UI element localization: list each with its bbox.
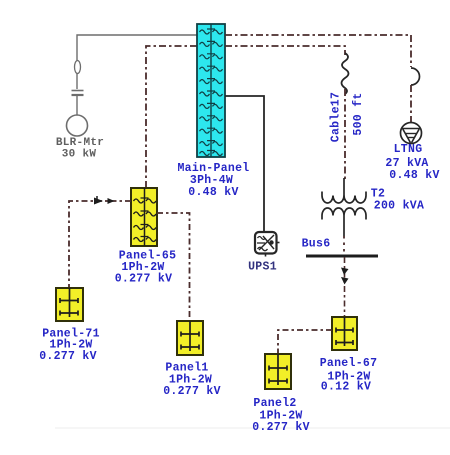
svg-text:UPS1: UPS1 <box>248 261 277 274</box>
transformer T2 <box>322 192 366 220</box>
svg-text:0.277 kV: 0.277 kV <box>252 421 310 434</box>
panel Main-Panel <box>197 24 225 157</box>
lighting load LTNG <box>401 123 422 144</box>
wire Bus6 to Panel-67 (dash-dot) <box>344 257 346 317</box>
wire motor branch horizontal (gray) <box>77 35 197 61</box>
wire Panel2 to Panel-67 (dash-dot) <box>278 330 332 354</box>
panel Panel-65 <box>131 188 157 246</box>
wire Main-Panel to UPS1 (solid) <box>225 96 264 231</box>
wire switch to LTNG (dash-dot) <box>410 85 412 123</box>
fuse arrows (Panel-67 feeder) <box>341 268 349 285</box>
svg-text:0.277 kV: 0.277 kV <box>163 385 221 398</box>
wire T2 top pigtail <box>343 178 345 196</box>
svg-text:BLR-Mtr: BLR-Mtr <box>56 137 104 149</box>
wire fuse to contact (gray) <box>76 74 78 90</box>
svg-text:500 ft: 500 ft <box>352 92 365 135</box>
panel Panel-67 <box>332 317 357 350</box>
wire T2 to Bus6 <box>343 216 345 237</box>
svg-text:0.277 kV: 0.277 kV <box>39 350 97 363</box>
wire Panel-65 to Panel1 (dash-dot) <box>157 213 190 321</box>
svg-text:0.48 kV: 0.48 kV <box>389 169 439 182</box>
ups UPS1 <box>255 232 280 257</box>
svg-text:Bus6: Bus6 <box>302 238 331 251</box>
panel Panel2 <box>265 354 291 389</box>
panel Panel-71 <box>56 288 83 321</box>
svg-text:30 kW: 30 kW <box>62 149 97 161</box>
switch arc (LTNG branch) <box>411 68 420 85</box>
canvas border (bottom faint line) <box>55 427 450 429</box>
wire riser to Panel-65 (dash-dot) <box>146 46 197 188</box>
svg-text:Panel2: Panel2 <box>253 397 296 410</box>
wire second run to cable (dash-dot) <box>225 46 345 55</box>
svg-text:LTNG: LTNG <box>394 143 423 156</box>
cable Cable17 <box>342 53 349 94</box>
svg-text:0.277 kV: 0.277 kV <box>115 273 173 286</box>
panel Panel1 <box>177 321 203 355</box>
svg-text:Panel-67: Panel-67 <box>320 357 378 370</box>
fuse arrows (Panel-71 feeder) <box>94 196 115 205</box>
contact (motor branch, two bars) <box>72 91 84 96</box>
fuse (motor branch) <box>75 61 81 74</box>
wire cable to T2 (dash-dot) <box>344 89 346 181</box>
svg-text:0.12 kV: 0.12 kV <box>321 381 371 394</box>
bus Bus6 <box>306 255 378 258</box>
svg-text:0.48 kV: 0.48 kV <box>188 186 238 199</box>
svg-text:Cable17: Cable17 <box>330 92 343 142</box>
wire Panel-65 to Panel-71 (dash-dot) <box>69 201 131 288</box>
wire top run to LTNG (dash-dot) <box>225 35 411 67</box>
svg-text:200 kVA: 200 kVA <box>374 200 424 213</box>
motor BLR-Mtr <box>67 115 88 136</box>
wire contact to motor (gray) <box>76 96 78 115</box>
